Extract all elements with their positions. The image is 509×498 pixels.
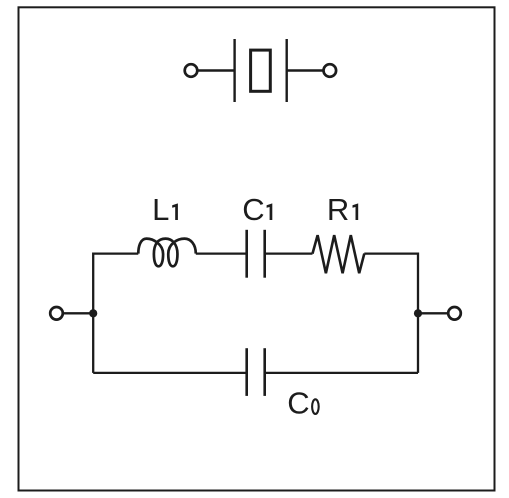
wire top left [93, 254, 138, 373]
junction node left [89, 309, 97, 317]
junction node right [414, 309, 422, 317]
label C1 subscript 1 [267, 203, 273, 220]
label L1 subscript 1 [172, 203, 178, 220]
terminal right [448, 307, 461, 320]
svg-text:C: C [287, 386, 309, 421]
terminal right [324, 64, 337, 77]
wire top right [364, 254, 418, 373]
label C0 subscript 0 [312, 399, 319, 414]
crystal left plate [233, 39, 235, 102]
wire left terminal [57, 312, 94, 314]
wire inductor to C1 [196, 252, 247, 254]
wire bottom left [93, 372, 247, 374]
terminal left [185, 64, 198, 77]
equivalent circuit [50, 230, 461, 396]
wire bottom right [265, 372, 418, 374]
terminal left [50, 307, 63, 320]
resistor R1 [313, 235, 365, 273]
wire right terminal [418, 312, 455, 314]
label R1 subscript 1 [353, 203, 359, 220]
crystal body rectangle [251, 50, 271, 91]
wire [287, 69, 330, 71]
svg-text:R: R [327, 192, 349, 227]
svg-text:C: C [242, 192, 264, 227]
capacitor C0 right plate [263, 348, 266, 396]
wire C1 to R1 [265, 252, 313, 254]
wire [191, 69, 235, 71]
capacitor C0 left plate [245, 348, 248, 396]
capacitor C1 left plate [245, 230, 248, 278]
crystal Y1 (quartz resonator symbol) [185, 39, 336, 102]
capacitor C1 right plate [263, 230, 266, 278]
inductor L1 [138, 239, 196, 267]
svg-text:L: L [152, 192, 169, 227]
crystal right plate [286, 39, 288, 102]
